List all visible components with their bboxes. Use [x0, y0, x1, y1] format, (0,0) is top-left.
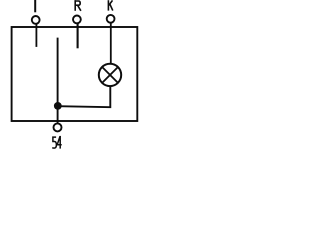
wire: lead up from left terminal to image top: [34, 0, 36, 12]
terminal circle K: [107, 15, 115, 23]
junction dot: [54, 102, 62, 110]
label 54: [52, 136, 62, 149]
wire: from terminal K down to lamp: [110, 23, 112, 64]
relay box outline: [12, 27, 138, 121]
terminal circle R: [73, 16, 81, 24]
lamp L1 (circle with X): [99, 64, 121, 86]
wire: contact stub below left terminal: [35, 24, 37, 47]
wire: switch arm / center wire down to terminal 54: [57, 38, 59, 123]
label K: [108, 0, 112, 10]
terminal circle (left, unlabeled): [32, 16, 40, 24]
label R: [75, 0, 81, 11]
wire: from lamp bottom down then left to junction: [58, 86, 110, 107]
terminal circle 54: [54, 123, 62, 131]
wire: contact stub below terminal R: [77, 23, 79, 48]
